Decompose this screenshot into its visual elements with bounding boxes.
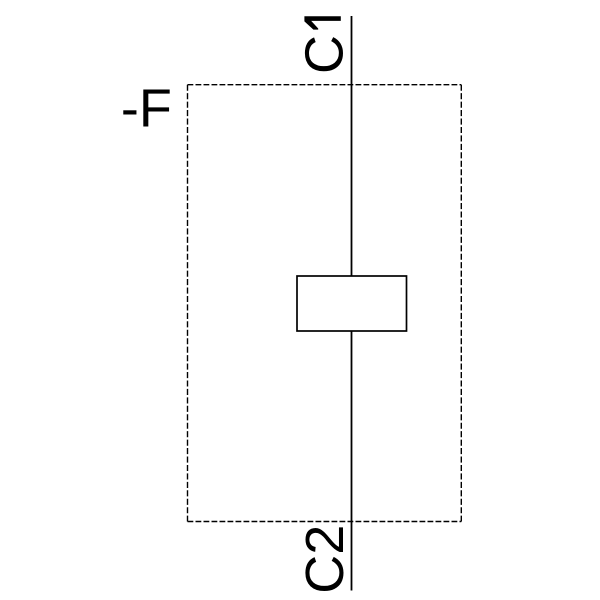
terminal label C1	[294, 16, 354, 74]
wire (terminal C1 lead)	[351, 16, 353, 276]
coil -F (operating coil rectangle)	[297, 276, 407, 331]
wire (terminal C2 lead)	[351, 331, 353, 591]
device -F dashed enclosure outline	[188, 85, 462, 522]
svg-text:C: C	[294, 35, 354, 74]
svg-text:-F: -F	[121, 79, 172, 139]
svg-text:C2: C2	[295, 525, 355, 594]
